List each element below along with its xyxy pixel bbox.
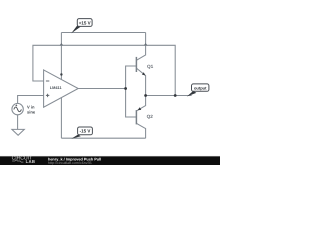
op-amp U1 LM411 body (44, 70, 79, 107)
marker arrow on Q1 collector at feedback crossing (144, 43, 148, 45)
source polarity plus (15, 105, 17, 107)
output label text (194, 86, 207, 91)
-15V flag wedge (71, 135, 80, 139)
svg-text:+15 V: +15 V (79, 20, 91, 25)
banner logo CIRCUIT (12, 155, 33, 161)
junction dot feedback tap on output (174, 94, 177, 97)
transistor Q1 emitter arrow (NPN) (142, 72, 146, 75)
+15V flag box (77, 19, 92, 27)
banner logo LAB (26, 159, 36, 164)
ground (12, 129, 24, 135)
op-amp plus sign (46, 94, 49, 97)
banner url (48, 161, 92, 166)
op-amp label LM411 (50, 85, 62, 90)
wire non-inverting input from source (18, 96, 45, 104)
transistor Q1 base bar (135, 57, 137, 72)
wire source to ground (17, 115, 19, 130)
banner logo trace glyph (12, 160, 23, 162)
transistor Q1 label (147, 64, 153, 70)
svg-text:V in: V in (27, 105, 35, 110)
output flag wedge (187, 91, 197, 97)
junction dot emitters output node (144, 94, 147, 97)
wire -15V rail (61, 137, 145, 139)
banner title (48, 157, 101, 162)
svg-text:output: output (194, 86, 207, 91)
wire +15V rail (61, 32, 145, 34)
svg-text:LAB: LAB (26, 159, 36, 164)
wire base bus Q1/Q2 (126, 66, 137, 117)
svg-text:LM411: LM411 (50, 85, 62, 90)
source label V in / sine (27, 105, 35, 110)
wire output run to flag (146, 95, 192, 97)
wire feedback net (output to inverting input) (33, 45, 175, 95)
wire op-amp V+ supply drop (60, 33, 62, 80)
source sine squiggle (14, 107, 22, 112)
source V1 circle (12, 103, 23, 114)
svg-text:sine: sine (27, 110, 35, 115)
transistor Q2 base bar (135, 110, 137, 124)
+15V flag wedge (71, 25, 81, 33)
wire Q1 collector to +15 rail (136, 33, 145, 61)
svg-text:-15 V: -15 V (80, 129, 91, 134)
wire Q2 emitter from output node (136, 96, 145, 111)
svg-text:Q1: Q1 (147, 64, 153, 70)
wire Q1 emitter to output node (136, 68, 145, 95)
wire Q2 collector to -15 rail (136, 123, 145, 138)
wire op-amp V- supply drop (60, 98, 62, 139)
marker arrow on V+ at feedback crossing (60, 43, 64, 45)
transistor Q2 label (147, 113, 153, 119)
junction dot V+ pin (60, 73, 62, 75)
junction dot base bus / op-amp output (124, 87, 127, 90)
svg-text:Q2: Q2 (147, 113, 153, 119)
transistor Q2 emitter arrow (PNP) (138, 107, 142, 110)
op-amp minus sign (46, 80, 49, 82)
svg-text:http://circuitlab.com/c6nv35: http://circuitlab.com/c6nv35 (48, 161, 92, 165)
wire op-amp output to base bus (78, 88, 125, 90)
-15V flag box (78, 127, 93, 135)
+15V label text (79, 20, 91, 25)
banner bar (0, 155, 220, 158)
-15V label text (80, 129, 91, 134)
output flag box (192, 84, 209, 91)
